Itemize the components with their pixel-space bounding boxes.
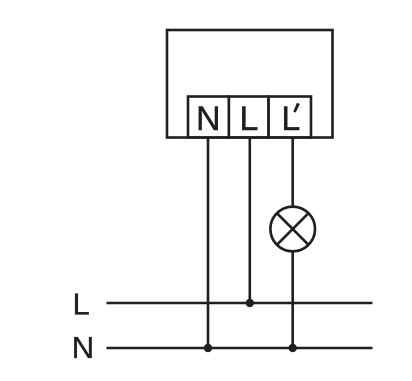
wire N terminal to N line [207, 138, 210, 349]
wire L terminal to L line [249, 138, 252, 304]
lamp E1 [270, 207, 315, 252]
svg-text:L: L [240, 100, 259, 138]
junction dot N line / N wire [204, 344, 212, 352]
junction dot N line / lamp wire [289, 344, 297, 352]
junction dot L line / L wire [246, 299, 254, 307]
device box U1 [167, 30, 333, 138]
wire L' terminal to lamp [291, 138, 294, 208]
svg-text:N: N [196, 100, 221, 138]
L supply line [107, 302, 373, 305]
svg-text:N: N [72, 330, 94, 365]
terminal N [188, 97, 229, 138]
terminal L' [269, 97, 312, 138]
wire lamp to N line [291, 252, 294, 349]
terminal L [229, 97, 269, 138]
prime mark of L' [293, 103, 300, 113]
N supply line [107, 347, 373, 350]
svg-text:L: L [73, 286, 90, 321]
